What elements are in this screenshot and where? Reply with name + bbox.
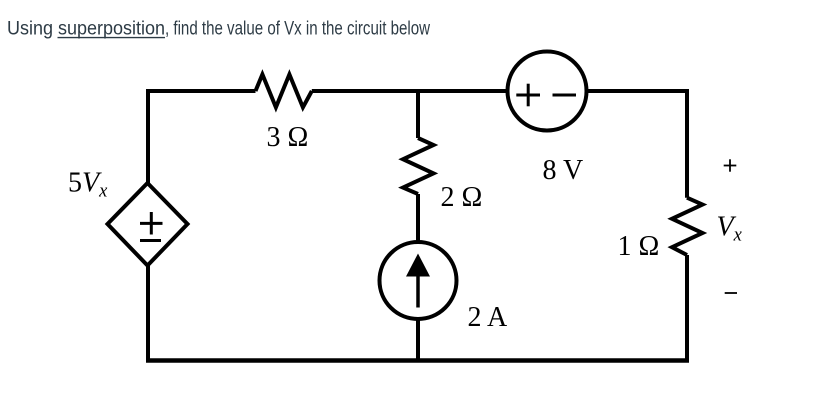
svg-text:1 Ω: 1 Ω	[618, 231, 660, 262]
wire: right vertical upper segment	[685, 89, 689, 198]
wire: top-right horizontal segment	[588, 89, 689, 93]
wire: left vertical upper segment	[146, 89, 150, 184]
svg-text:Vx: Vx	[717, 212, 743, 246]
minus sign inside V1	[553, 94, 577, 97]
question title text	[7, 17, 431, 39]
svg-text:8 V: 8 V	[543, 155, 584, 186]
wire: bottom horizontal rail	[146, 358, 689, 363]
voltage source V1 8V (circle)	[508, 52, 587, 131]
svg-text:2 Ω: 2 Ω	[441, 182, 483, 213]
svg-text:5Vx: 5Vx	[68, 168, 108, 202]
arrow inside I1 (pointing up)	[406, 254, 430, 308]
resistor R1 3-ohm (horizontal zigzag)	[256, 74, 312, 107]
plus polarity mark of Vx	[724, 159, 737, 171]
plus sign inside V1	[516, 84, 540, 107]
wire: top-left horizontal segment	[146, 89, 256, 93]
resistor R3 1-ohm (right vertical zigzag)	[672, 198, 703, 255]
wire: middle segment between R2 and current source	[416, 194, 420, 242]
wire: top-middle horizontal segment	[312, 89, 506, 93]
wire: middle vertical lower segment	[416, 319, 420, 363]
svg-text:2 A: 2 A	[468, 302, 508, 333]
resistor R2 2-ohm (middle vertical zigzag)	[403, 138, 434, 194]
minus sign inside E1	[140, 239, 161, 242]
wire: right vertical lower segment	[685, 255, 689, 363]
minus polarity mark of Vx	[725, 292, 737, 294]
plus sign inside E1	[140, 212, 163, 235]
svg-text:3 Ω: 3 Ω	[267, 122, 309, 153]
current source I1 2A (circle)	[380, 242, 457, 319]
wire: middle vertical upper segment	[416, 89, 420, 138]
svg-text:Using superposition, find the: Using superposition, find the value of V…	[7, 17, 431, 39]
dependent source E1 5Vx (diamond)	[108, 183, 188, 266]
wire: left vertical lower segment	[146, 265, 150, 363]
